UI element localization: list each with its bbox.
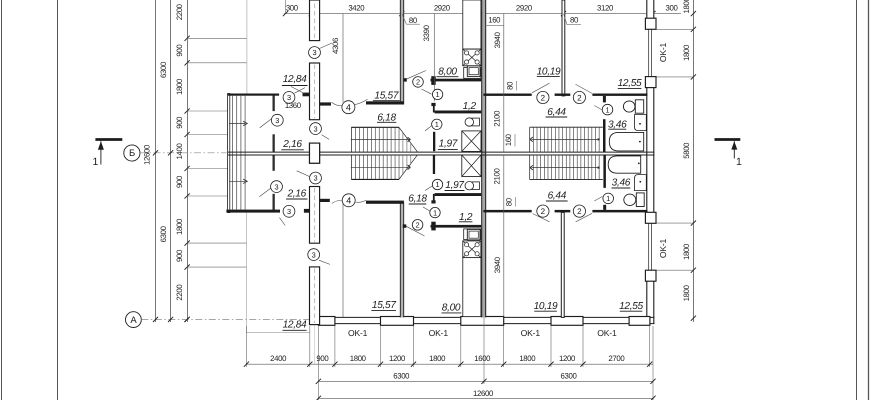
- svg-text:1800: 1800: [682, 243, 691, 260]
- door marker 3 hall-mid lower: [310, 172, 322, 184]
- door marker 1 wc-b lower: [432, 179, 442, 189]
- door leaf line corridor-right lower: [576, 213, 592, 222]
- pier wall corridor crossing redraw: [310, 143, 320, 163]
- svg-text:6300: 6300: [561, 372, 578, 381]
- kitchen counter upper: [463, 0, 481, 49]
- kitchen wall A upper: [431, 79, 482, 82]
- svg-text:1: 1: [605, 105, 609, 114]
- svg-text:12600: 12600: [473, 389, 494, 398]
- svg-text:10,19: 10,19: [534, 301, 558, 312]
- svg-text:15,57: 15,57: [374, 91, 398, 102]
- svg-text:2100: 2100: [492, 110, 501, 127]
- svg-text:3,46: 3,46: [612, 178, 631, 189]
- hall partition segment y193.8: [273, 194, 275, 211]
- kitchen sink basin upper: [467, 66, 480, 77]
- axis bubble A: [125, 312, 141, 328]
- svg-text:1800: 1800: [519, 354, 536, 363]
- door leaf line corridor-left upper: [532, 83, 550, 93]
- svg-text:6,44: 6,44: [547, 107, 566, 118]
- svg-text:6300: 6300: [159, 61, 168, 78]
- washing machine lower: [635, 175, 647, 191]
- kitchen door tick lower: [431, 222, 435, 231]
- sheet border line right inner: [856, 0, 858, 400]
- svg-text:А: А: [130, 315, 137, 326]
- svg-text:5800: 5800: [682, 142, 691, 159]
- svg-text:4: 4: [346, 196, 351, 206]
- svg-text:80: 80: [570, 16, 579, 25]
- dim column 6300 line: [170, 0, 172, 322]
- svg-text:12,84: 12,84: [283, 74, 307, 85]
- door marker 3 porch upper: [271, 114, 283, 126]
- svg-text:2: 2: [541, 207, 546, 216]
- kitchen sink counter upper: [464, 68, 481, 79]
- terrace outline lower faint: [245, 213, 247, 333]
- svg-text:1: 1: [435, 180, 439, 189]
- wc wall B hook upper: [433, 103, 435, 113]
- door marker 2 kitchen upper: [413, 77, 424, 88]
- dim line 4306 vertical lower: [342, 204, 344, 317]
- svg-text:1,97: 1,97: [439, 139, 458, 150]
- svg-text:1800: 1800: [175, 218, 184, 235]
- svg-text:8,00: 8,00: [442, 303, 461, 314]
- porch bottom bar: [226, 210, 280, 213]
- door leaf line corridor-left lower: [533, 214, 550, 222]
- wc vertical wall upper: [433, 132, 435, 151]
- svg-text:1: 1: [436, 90, 440, 99]
- dim column fine line: [187, 0, 189, 322]
- section mark 1 left: [95, 138, 122, 141]
- bathtub lower: [608, 156, 641, 173]
- svg-text:10,19: 10,19: [537, 67, 561, 78]
- svg-text:3: 3: [275, 116, 279, 125]
- kitchen stove upper: [463, 49, 481, 66]
- svg-text:900: 900: [316, 354, 329, 363]
- bottom dim row1 ticks: [244, 362, 249, 367]
- svg-text:12,84: 12,84: [283, 320, 307, 331]
- top dim extension at 285: [285, 0, 287, 14]
- wall x400 upper: [400, 0, 403, 105]
- svg-text:900: 900: [175, 249, 184, 262]
- svg-text:3: 3: [274, 182, 278, 191]
- dim line 2100 vertical: [503, 14, 505, 152]
- sheet border line right outer: [868, 0, 870, 400]
- svg-text:1200: 1200: [389, 354, 406, 363]
- svg-text:Б: Б: [129, 148, 135, 159]
- right dim column line: [693, 0, 695, 322]
- stair break diagonal left lower: [399, 155, 417, 179]
- svg-text:12,55: 12,55: [618, 78, 642, 89]
- bottom wall window sill blocks W1-W5: [318, 317, 335, 326]
- svg-text:1800: 1800: [429, 354, 446, 363]
- svg-text:2: 2: [541, 93, 546, 102]
- door marker 2 corridor-right lower: [573, 205, 585, 217]
- svg-text:3: 3: [313, 174, 317, 183]
- stair break diagonal left upper: [399, 127, 417, 151]
- top dim ticks: [283, 11, 288, 16]
- door marker 1 wc-a upper: [432, 89, 442, 99]
- svg-text:4306: 4306: [331, 38, 340, 54]
- kitchen door jamb tick on wall400 lower: [403, 224, 407, 227]
- wc vertical wall lower: [433, 155, 435, 174]
- svg-text:2920: 2920: [516, 4, 533, 13]
- svg-text:2700: 2700: [608, 354, 625, 363]
- stair arrow left upper: [351, 139, 410, 141]
- kitchen door tick upper: [431, 76, 435, 85]
- axis line B dash-dot: [140, 152, 227, 154]
- hall partition segment y154.7: [273, 155, 275, 171]
- svg-text:1: 1: [433, 208, 437, 217]
- svg-text:1: 1: [435, 120, 439, 129]
- svg-text:1800: 1800: [350, 354, 367, 363]
- door marker 2 kitchen lower: [412, 220, 423, 231]
- bottom dim row3 line: [318, 397, 653, 399]
- wc washbasin upper: [472, 118, 480, 126]
- svg-text:OK-1: OK-1: [521, 328, 541, 338]
- svg-text:1200: 1200: [559, 354, 576, 363]
- bath door stub lower: [603, 205, 606, 210]
- partition wall x562 upper: [562, 0, 565, 96]
- wc wall B lower: [435, 193, 482, 196]
- bath door stub upper: [603, 96, 606, 103]
- svg-text:2: 2: [577, 207, 582, 216]
- door marker 2 corridor-left lower: [537, 205, 549, 217]
- svg-text:OK-1: OK-1: [429, 328, 449, 338]
- washing machine upper: [635, 115, 647, 131]
- door marker 1 bath lower: [603, 193, 614, 204]
- door marker 4 upper: [342, 101, 355, 114]
- axis ticks at columns: [153, 150, 158, 155]
- svg-text:2200: 2200: [175, 3, 184, 20]
- hall door wall piece upper: [320, 102, 331, 105]
- door marker 2 corridor-left upper: [537, 91, 549, 103]
- door marker 3 hall-bottom lower: [308, 249, 320, 261]
- svg-text:1: 1: [92, 156, 98, 168]
- hall partition segment y134.3: [273, 134, 275, 152]
- bath west wall lower: [603, 155, 606, 188]
- stair flight left lower: [351, 178, 399, 180]
- svg-text:3420: 3420: [348, 4, 365, 13]
- svg-text:300: 300: [286, 4, 299, 13]
- svg-text:OK-1: OK-1: [658, 238, 668, 258]
- svg-text:3940: 3940: [493, 256, 502, 273]
- corridor south wall segs lower: [483, 210, 531, 213]
- vent shaft lower: [462, 155, 481, 177]
- svg-text:1,2: 1,2: [459, 212, 473, 223]
- door marker 3 hall-top upper: [309, 47, 321, 59]
- bottom exterior wall: [310, 316, 655, 318]
- corridor north wall segs upper: [483, 94, 531, 96]
- svg-text:1: 1: [736, 156, 742, 168]
- svg-text:OK-1: OK-1: [597, 328, 617, 338]
- svg-text:6,18: 6,18: [408, 194, 427, 205]
- stair clipped risers left lower: [402, 155, 404, 174]
- pier wall centerline dashed: [314, 4, 316, 40]
- right dim ticks: [691, 11, 696, 16]
- door leaf line corridor-right upper: [576, 84, 593, 93]
- porch stair arrow lower: [229, 180, 245, 182]
- svg-text:1400: 1400: [175, 143, 184, 160]
- bathtub upper: [609, 132, 643, 151]
- window sill blocks right wall: [645, 18, 656, 29]
- door marker 2 corridor-right upper: [573, 91, 585, 103]
- kitchen sink counter lower: [464, 229, 481, 240]
- bottom dim row1 line: [246, 363, 653, 365]
- svg-text:12600: 12600: [142, 144, 151, 165]
- wc door tick upper: [431, 103, 435, 106]
- pier wall segment y0: [310, 0, 320, 41]
- svg-text:OK-1: OK-1: [348, 328, 368, 338]
- pier wall segment y186.5: [310, 187, 320, 244]
- svg-text:3: 3: [287, 207, 291, 216]
- kitchen counter lower: [463, 258, 481, 317]
- sheet border line left outer: [1, 0, 3, 400]
- svg-text:1800: 1800: [682, 284, 691, 301]
- svg-text:1800: 1800: [682, 44, 691, 61]
- svg-text:160: 160: [504, 133, 513, 146]
- stair arrow left lower: [351, 166, 410, 168]
- room 15.57 south wall upper: [366, 101, 404, 104]
- sheet border line left inner: [57, 0, 59, 400]
- kitchen stove lower: [463, 241, 481, 258]
- svg-text:2: 2: [577, 93, 582, 102]
- svg-text:6300: 6300: [393, 372, 410, 381]
- svg-text:80: 80: [505, 197, 514, 206]
- stair arrow right lower: [598, 167, 600, 169]
- bottom dim row2 ticks: [316, 379, 321, 384]
- svg-text:3: 3: [312, 250, 316, 259]
- door marker 4 lower: [342, 194, 355, 207]
- svg-text:2920: 2920: [434, 4, 451, 13]
- svg-text:3: 3: [312, 48, 316, 57]
- porch top bar: [228, 94, 280, 96]
- svg-text:2400: 2400: [270, 354, 287, 363]
- door marker 1 wc-b upper: [432, 119, 442, 129]
- svg-text:3: 3: [287, 93, 291, 102]
- svg-text:80: 80: [409, 16, 418, 25]
- door marker 3 entry upper: [283, 92, 295, 104]
- svg-text:6,44: 6,44: [548, 191, 567, 202]
- svg-text:6,18: 6,18: [377, 112, 396, 123]
- axis line A dash-dot: [141, 319, 317, 321]
- svg-text:2,16: 2,16: [282, 139, 302, 150]
- svg-text:3390: 3390: [422, 24, 431, 41]
- stair clipped risers left upper: [402, 133, 404, 152]
- right wall window W7 glazing lower: [646, 223, 655, 270]
- entry door tick upper: [303, 93, 310, 97]
- dim column 12600 line: [155, 0, 157, 322]
- svg-text:2: 2: [416, 78, 420, 87]
- bottom dim extension lines: [245, 326, 247, 367]
- svg-text:900: 900: [175, 44, 184, 57]
- svg-text:3940: 3940: [493, 31, 502, 48]
- door marker 3 hall-mid upper: [310, 123, 322, 135]
- svg-text:1800: 1800: [175, 78, 184, 95]
- porch stair risers: [232, 96, 234, 210]
- dim line 4306 vertical upper: [342, 14, 344, 103]
- svg-text:160: 160: [488, 15, 501, 24]
- terrace outline upper faint: [246, 0, 248, 94]
- svg-text:12,55: 12,55: [619, 301, 643, 312]
- bottom dim row3 ticks: [316, 396, 321, 400]
- svg-text:300: 300: [666, 4, 679, 13]
- pier wall segment y63: [310, 63, 320, 120]
- svg-text:OK-1: OK-1: [658, 42, 668, 62]
- svg-text:2: 2: [416, 220, 420, 229]
- wc washbasin lower: [472, 182, 480, 190]
- svg-text:3120: 3120: [597, 4, 614, 13]
- svg-text:2,16: 2,16: [286, 189, 306, 200]
- svg-text:1: 1: [606, 194, 610, 203]
- svg-text:1600: 1600: [474, 354, 491, 363]
- axis bubble B: [124, 145, 140, 161]
- extension lines left dims: [187, 37, 247, 39]
- hall door wall piece lower: [320, 199, 330, 202]
- bottom dim row2 line: [318, 380, 653, 382]
- corridor wall line upper: [228, 151, 655, 153]
- svg-text:900: 900: [175, 116, 184, 129]
- svg-text:3: 3: [313, 124, 317, 133]
- door marker 1 wc-a lower: [430, 207, 440, 217]
- svg-text:1,97: 1,97: [445, 180, 464, 191]
- vent shaft upper: [462, 131, 481, 152]
- pier wall segment y266.9: [310, 267, 320, 325]
- fine dim ticks left column: [185, 36, 190, 41]
- entry door tick lower: [304, 209, 310, 213]
- wc door tick lower: [431, 200, 435, 203]
- hall partition segment y95.4: [273, 95, 275, 111]
- door marker 3 porch lower: [271, 181, 283, 193]
- svg-text:900: 900: [175, 175, 184, 188]
- svg-text:15,57: 15,57: [372, 300, 396, 311]
- stair arrow right upper: [598, 138, 600, 140]
- right exterior wall: [646, 0, 654, 324]
- central party wall: [482, 0, 486, 317]
- section mark 1 right: [715, 138, 741, 141]
- top dim line: [284, 13, 681, 15]
- kitchen sink basin lower: [467, 229, 480, 240]
- kitchen door jamb tick on wall400 upper: [403, 78, 407, 81]
- porch left edge: [228, 94, 230, 213]
- wc wall B hook lower: [433, 194, 435, 204]
- wc wall B upper: [435, 111, 482, 114]
- room 15.57 north wall lower: [366, 201, 404, 204]
- stair flight left upper: [351, 126, 399, 128]
- svg-text:6300: 6300: [159, 225, 168, 242]
- svg-text:4: 4: [346, 102, 351, 112]
- door marker 3 entry lower: [283, 205, 295, 217]
- svg-text:80: 80: [506, 81, 515, 90]
- toilet upper: [623, 101, 635, 112]
- stair flight right upper: [530, 126, 603, 128]
- porch stair arrow upper: [229, 123, 245, 125]
- stair flight right lower: [530, 179, 603, 181]
- corridor wall line lower: [228, 154, 655, 156]
- kitchen wall A lower: [431, 225, 482, 228]
- svg-text:2100: 2100: [492, 168, 501, 185]
- svg-text:1800: 1800: [682, 0, 691, 13]
- door marker 1 bath upper: [602, 104, 613, 115]
- leader 12.84 upper: [291, 87, 305, 94]
- svg-text:8,00: 8,00: [438, 66, 457, 77]
- right wall window W6 glazing upper: [646, 29, 655, 76]
- bath west wall upper: [603, 119, 606, 152]
- wall x400 lower: [400, 202, 403, 317]
- toilet lower: [624, 194, 636, 205]
- partition wall x562 lower: [561, 212, 564, 317]
- dim line 3390 vertical upper: [433, 14, 435, 102]
- pier wall segment y143.1: [310, 143, 320, 163]
- svg-text:2200: 2200: [175, 284, 184, 301]
- right dim extension lines: [656, 28, 693, 30]
